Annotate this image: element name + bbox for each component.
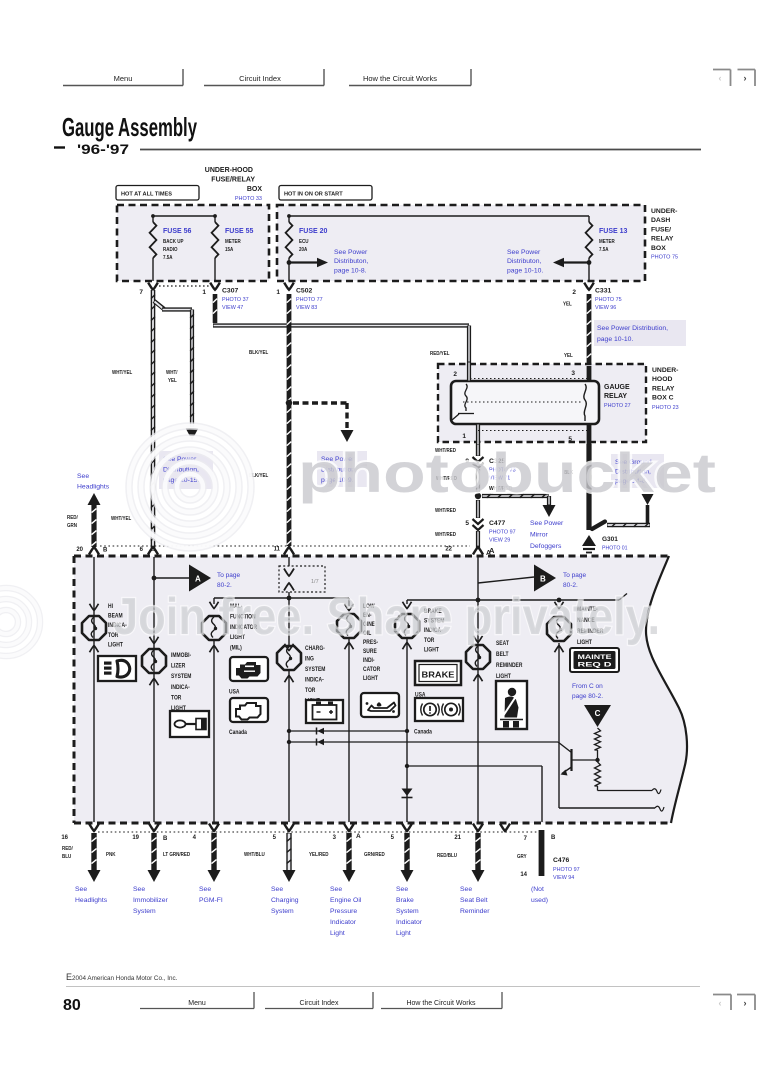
svg-text:Distributon,: Distributon, [507,258,541,265]
label box HOT AT ALL TIMES [116,186,199,201]
junction dot bus at maintenance wire [557,598,562,603]
indicator bus right (brake/seatbelt/maintenance) [407,594,627,605]
svg-text:B: B [551,835,556,841]
svg-text:Canada: Canada [229,730,248,737]
svg-text:WHT/RED: WHT/RED [435,532,456,538]
svg-text:GRY: GRY [517,854,527,860]
wire BLK/YEL pin11 into box [288,557,290,566]
arrow C from page 80-2 [584,705,611,727]
svg-text:System: System [396,908,419,915]
svg-text:See: See [460,886,472,893]
lamp maintenance reminder light [547,617,571,641]
svg-text:VIEW 94: VIEW 94 [553,875,574,881]
svg-text:INDICA-: INDICA- [305,677,324,684]
icon MIL engine Canada [230,698,268,722]
svg-text:YEL: YEL [564,353,573,359]
page title Gauge Assembly [62,112,197,142]
svg-text:BOX C: BOX C [652,395,674,402]
svg-text:Menu: Menu [188,1000,206,1007]
junction dot WHT/RED [475,493,481,499]
label IMMOBILIZER SYSTEM INDICATOR LIGHT [171,653,192,713]
svg-text:B: B [163,836,168,842]
wire charging down [288,671,290,822]
svg-text:FUSE/RELAY: FUSE/RELAY [211,177,255,184]
svg-text:LIGHT: LIGHT [424,647,439,654]
svg-text:Join free. Share privately.: Join free. Share privately. [113,588,660,646]
svg-text:HOT AT ALL TIMES: HOT AT ALL TIMES [121,192,172,198]
svg-text:MAINTE: MAINTE [578,655,612,661]
svg-text:used): used) [531,897,548,904]
wire brake down [406,639,408,822]
svg-text:(Not: (Not [531,886,544,893]
charging bulb connectors [285,644,294,683]
svg-text:UNDER-: UNDER- [651,208,677,215]
svg-text:VIEW 96: VIEW 96 [595,305,616,311]
svg-text:FUSE 55: FUSE 55 [225,228,254,235]
svg-text:SYSTEM: SYSTEM [171,674,192,681]
svg-text:photobucket: photobucket [298,441,716,504]
svg-text:See: See [77,473,89,480]
svg-text:BRAKE: BRAKE [422,670,455,680]
svg-text:FUSE/: FUSE/ [651,226,671,233]
svg-text:RELAY: RELAY [651,236,674,243]
relay pin 3 wire [571,366,589,381]
relay coil [452,384,474,420]
svg-text:Mirror: Mirror [530,532,548,539]
wire WHT/YEL branch to power distribution [154,301,194,427]
svg-text:IMMOBI-: IMMOBI- [171,653,191,660]
node dot fuse20 bus [287,214,291,218]
wire color label headlights [62,846,73,860]
svg-text:CATOR: CATOR [363,667,380,674]
svg-text:How the Circuit Works: How the Circuit Works [363,74,437,83]
wire YEL from C331 to relay [587,294,592,366]
svg-text:See Power Distribution,: See Power Distribution, [597,325,668,332]
junction dot A-bus [476,598,481,603]
note See immobilizer [133,886,168,915]
svg-text:15A: 15A [225,247,234,253]
svg-text:BLU: BLU [62,854,72,860]
arrow to See Power Distribution page 10-8 [287,258,328,268]
wire GRY C476 not used [539,830,545,876]
wire color label seat-belt [437,853,457,859]
svg-text:C307: C307 [222,288,238,295]
svg-text:Headlights: Headlights [77,484,110,491]
svg-text:7.5A: 7.5A [163,255,173,261]
svg-text:A: A [486,550,491,557]
junction dot BLK/YEL branch [286,400,292,406]
wire WHT/RED C477 to node A [476,531,480,549]
lamp charging system indicator light [277,646,301,670]
wire WHT/RED C325 to junction [476,469,480,492]
svg-text:2: 2 [572,289,576,296]
label UNDER-HOOD RELAY BOX C [652,367,679,411]
svg-text:C331: C331 [595,288,611,295]
svg-text:5: 5 [391,835,395,841]
label C331 [595,288,622,312]
note See Power Mirror Defoggers [530,520,564,550]
footer nav prev box [713,995,731,1011]
svg-text:RADIO: RADIO [163,247,178,253]
svg-text:GRN/RED: GRN/RED [364,852,385,858]
icon oil can [361,693,399,717]
note See Headlights [77,473,110,491]
svg-text:Indicator: Indicator [330,919,357,926]
svg-text:PHOTO 97: PHOTO 97 [489,530,516,536]
svg-text:VIEW 29: VIEW 29 [489,538,510,544]
svg-text:REMINDER: REMINDER [496,663,522,670]
svg-text:C: C [595,709,601,718]
svg-text:YEL: YEL [563,301,572,307]
note To page 80-2 (B) [563,572,587,589]
connector pin 1 (C307) [202,283,219,296]
icon brake warning Canada [415,698,463,721]
header tab How the Circuit Works [349,69,471,86]
wire RED/GRN from headlights (arrow up) [88,493,101,547]
wire color label PGM-FI [163,852,191,858]
svg-text:7: 7 [524,836,528,842]
label UNDER-DASH FUSE/RELAY BOX [651,208,678,261]
resistor below base node [595,762,601,786]
bottom connector pin 5 (brake) [391,824,412,842]
svg-text:PNK: PNK [106,852,116,858]
svg-text:›: › [744,998,747,1008]
label G301 [602,536,628,552]
svg-text:20A: 20A [299,247,308,253]
label LOW ENGINE OIL PRESSURE INDICATOR LIGHT [363,604,380,683]
junction dot to page arrow A [152,576,157,581]
svg-text:Defoggers: Defoggers [530,543,562,550]
connector C325 [465,457,483,468]
wire low-oil down [348,639,350,822]
label SEAT BELT REMINDER LIGHT [496,641,522,681]
lamp low engine oil pressure indicator light [337,614,361,638]
label C477 [489,520,516,544]
transistor Q (maintenance driver) [558,742,598,776]
svg-text:4: 4 [193,835,197,841]
svg-text:Circuit Index: Circuit Index [300,1000,339,1007]
icon hi-beam headlight [98,656,136,681]
svg-text:1/7: 1/7 [311,579,319,585]
top edge dotted link [100,545,470,547]
svg-text:Immobilizer: Immobilizer [133,897,168,904]
note See brake [396,886,423,937]
label WHT/YEL branch [166,370,178,384]
svg-text:Brake: Brake [396,897,414,904]
watermark join-free logo rings [0,588,40,656]
gauge assembly box fill [74,556,687,823]
lamp malfunction indicator light [202,616,226,640]
gauge assembly box left edge (dashed) [73,556,76,823]
svg-text:7.5A: 7.5A [599,247,609,253]
relay pin 2 wire [453,362,469,381]
wire bus fuse56-fuse55 [153,215,215,217]
svg-text:Menu: Menu [114,74,133,83]
icon MIL engine USA [230,657,268,681]
svg-text:G301: G301 [602,536,618,543]
svg-text:B: B [540,575,546,584]
svg-text:16: 16 [61,835,68,841]
svg-text:PHOTO 01: PHOTO 01 [602,546,628,552]
note See engine-oil [330,886,362,937]
svg-text:1: 1 [462,433,466,440]
svg-text:System: System [133,908,156,915]
wire hi-beam indicator [93,557,95,822]
svg-text:PHOTO 27: PHOTO 27 [604,403,631,409]
wire WHT/RED relay pin1 to C325 [476,444,480,456]
dashed branch wire to power distribution 10-9 [293,403,347,429]
svg-text:GAUGE: GAUGE [604,384,630,391]
diode link upper (charging to brake) [287,728,409,735]
maintenance bulb connectors [555,602,564,653]
indicator bus left (MIL/charging/oil) [214,598,349,606]
svg-text:YEL: YEL [168,378,177,384]
svg-text:C476: C476 [553,857,569,864]
svg-text:Circuit Index: Circuit Index [239,74,281,83]
bottom connector pin 4 (PGM-FI) [193,824,219,842]
label FUSE 20 [299,228,328,253]
svg-text:A: A [356,833,361,840]
label FUSE 55 [225,228,254,253]
svg-text:page 80-2.: page 80-2. [572,693,603,700]
output wire arrow seat-belt [472,833,485,882]
top pin 22/A connector [445,547,491,558]
svg-text:PHOTO 23: PHOTO 23 [652,405,679,411]
svg-text:ING: ING [305,656,314,663]
note See seat-belt [460,886,490,915]
icon seat belt [496,681,527,729]
svg-text:See Power: See Power [530,520,564,527]
svg-text:PHOTO 77: PHOTO 77 [296,297,323,303]
output wire arrow brake [401,833,414,882]
title rule [140,149,701,151]
connector pin 1 (C502) [276,283,293,296]
svg-text:VIEW 47: VIEW 47 [222,305,243,311]
top pin 20/B connector [76,547,108,555]
wire color label engine-oil [309,852,329,858]
wire pin11 to bus [288,592,290,646]
label MAINTENANCE REMINDER LIGHT [577,607,603,647]
footer tab Circuit Index [265,992,373,1009]
node dot fuse56 bus [151,214,155,218]
immobilizer bulb connectors [150,637,159,686]
wire resistor to base node [597,750,599,760]
label C325 [489,458,516,482]
svg-text:5: 5 [273,835,277,841]
low oil bulb connectors [345,604,354,650]
note See Power Distribution page 10-15 [159,451,213,489]
svg-text:RED/YEL: RED/YEL [430,351,449,357]
svg-text:1: 1 [202,289,206,296]
svg-text:page 10-10.: page 10-10. [507,267,543,274]
svg-text:From C on: From C on [572,683,603,690]
seat belt bulb connectors [474,636,483,682]
wire WHT/RED junction to C477 [476,500,480,518]
svg-text:VIEW 83: VIEW 83 [296,305,317,311]
svg-text:UNDER-HOOD: UNDER-HOOD [205,167,253,174]
fuse F13 [586,216,593,281]
MIL bulb connectors [210,602,219,653]
diode link lower (charging to transistor) [287,739,558,746]
svg-text:SURE: SURE [363,649,377,656]
svg-text:INDICA-: INDICA- [171,684,190,691]
svg-text:PHOTO 75: PHOTO 75 [595,297,622,303]
output wire arrow PGM-FI [208,833,221,882]
svg-text:FUSE 56: FUSE 56 [163,228,192,235]
arrowhead See Ground Distribution [642,494,654,505]
wire to arrow A [154,577,189,579]
note See PGM-FI [199,886,223,904]
svg-text:page 10-10.: page 10-10. [597,336,633,343]
note See Power Distribution page 10-8 [334,249,368,274]
svg-text:BOX: BOX [247,186,263,193]
svg-text:PHOTO 33: PHOTO 33 [235,196,262,202]
svg-text:14: 14 [520,872,527,878]
gauge assembly box bottom edge (dashed) [74,822,671,825]
svg-text:3: 3 [333,835,337,841]
svg-text:TOR: TOR [171,695,181,702]
label HI BEAM INDICATOR LIGHT [108,604,127,649]
ground symbol G301 [582,535,596,553]
svg-text:YEL/RED: YEL/RED [309,852,329,858]
svg-text:LIGHT: LIGHT [496,674,511,681]
svg-text:6: 6 [140,547,144,553]
svg-text:›: › [744,73,747,83]
note See Power Distribution page 10-10 (right) [594,320,686,346]
branch wire to power mirror defoggers [482,494,549,505]
svg-text:LIZER: LIZER [171,663,185,670]
wire maintenance to torn edge [559,806,664,811]
svg-text:PHOTO 97: PHOTO 97 [553,867,580,873]
wire color label brake [364,852,385,858]
label CHARGING SYSTEM INDICATOR LIGHT [305,646,326,705]
footer rule [66,986,700,988]
svg-text:Engine Oil: Engine Oil [330,897,362,904]
copyright line [66,972,178,982]
arrowhead See Power Distribution 10-9 [341,430,354,442]
wire WHT/YEL from pin7 [151,290,156,551]
lamp brake system indicator light [395,614,419,638]
wire resistor to torn edge [598,786,662,794]
label FUSE 56 [163,228,192,261]
arrow A to page 80-2 [189,565,211,592]
relay pins 1-5 dotted link [478,430,589,432]
connector pin 2 (C331) [563,283,594,308]
fuse F55 [212,216,219,281]
svg-text:Distributon,: Distributon, [334,258,368,265]
junction dot base node [595,758,599,762]
label UNDER-HOOD FUSE/RELAY BOX [205,167,263,202]
node dot fuse55 bus [213,214,217,218]
svg-text:Gauge Assembly: Gauge Assembly [62,112,197,142]
svg-text:20: 20 [76,547,83,553]
relay pins 2-3 dotted link [470,378,589,380]
arrowhead See Power Mirror Defoggers [543,505,556,517]
svg-text:PGM-FI: PGM-FI [199,897,223,904]
svg-text:Light: Light [330,930,345,937]
note Not used [531,886,548,904]
bottom connector C476 pin 7 [500,824,528,879]
arrow B to page 80-2 [534,565,556,592]
svg-text:3: 3 [571,370,575,377]
svg-text:2: 2 [453,371,457,378]
svg-text:See: See [199,886,211,893]
ground distribution link [592,505,650,529]
wire bus fuse20-fuse13 [289,215,589,217]
output wire arrow engine-oil [343,833,356,882]
svg-text:7: 7 [139,289,143,296]
svg-text:METER: METER [599,239,615,245]
svg-text:To page: To page [563,572,587,579]
svg-text:B: B [103,548,108,554]
svg-text:WHT/: WHT/ [166,370,178,376]
svg-text:RELAY: RELAY [604,393,627,400]
svg-text:A: A [195,575,201,584]
note See charging [271,886,299,915]
junction dot bus at charging wire [287,596,292,601]
svg-text:See: See [133,886,145,893]
svg-text:UNDER-: UNDER- [652,367,678,374]
svg-text:PHOTO 37: PHOTO 37 [222,297,249,303]
svg-text:‹: ‹ [719,998,722,1008]
output wire arrow immobilizer [148,833,161,882]
labels WHT/RED column [435,448,457,538]
relay pin 5 wire [568,424,589,444]
diode on brake wire [402,789,413,798]
svg-text:WHT/RED: WHT/RED [435,508,456,514]
bottom connector pin 19 (immobilizer) [132,824,159,842]
svg-text:(MIL): (MIL) [230,645,242,652]
svg-text:USA: USA [229,689,239,696]
footer nav next box [737,995,755,1011]
svg-text:Indicator: Indicator [396,919,423,926]
inter-pin dotted link C307 [159,285,209,287]
svg-text:BELT: BELT [496,652,509,659]
svg-text:PHOTO 75: PHOTO 75 [651,255,678,261]
svg-text:C477: C477 [489,520,505,527]
bottom connector pin 5 (charging) [273,824,294,842]
relay pin 1 wire [462,424,478,456]
label C307 [222,288,249,312]
svg-text:RELAY: RELAY [652,385,675,392]
svg-text:Light: Light [396,930,411,937]
svg-text:HOT IN ON OR START: HOT IN ON OR START [284,192,343,198]
wire RED/YEL from C307 to gauge relay [213,294,469,362]
footer tab Menu [140,992,254,1009]
svg-text:LIGHT: LIGHT [363,676,378,683]
top pin 11 connector [274,547,294,555]
svg-text:See: See [75,886,87,893]
under-hood fuse/relay box (dashed) [117,205,269,281]
icon immobilizer key [170,711,209,737]
svg-text:Reminder: Reminder [460,908,490,915]
wire maintenance down [558,643,560,808]
svg-text:RED/: RED/ [67,515,78,521]
connector pin 7 (C307) [139,283,157,296]
svg-text:LT GRN/RED: LT GRN/RED [163,852,191,858]
svg-text:BLK/YEL: BLK/YEL [249,350,268,356]
icon charging battery [306,700,343,723]
bottom edge dotted link [98,831,538,833]
svg-text:WHT/BLU: WHT/BLU [244,852,265,858]
branch to arrow B [478,577,534,583]
svg-text:REQ D: REQ D [578,663,613,669]
svg-text:5: 5 [465,520,469,527]
relay switch contact [584,384,586,421]
subtitle '96-'97 [54,141,129,157]
icon MAINT REQD [570,648,619,672]
svg-text:See Power: See Power [334,249,368,256]
